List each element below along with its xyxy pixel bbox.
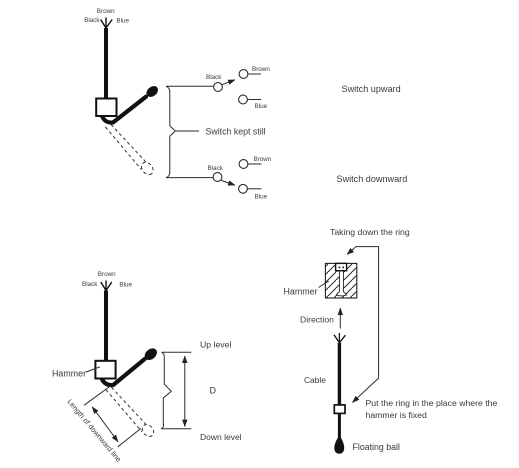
svg-text:Brown: Brown xyxy=(98,271,116,278)
svg-text:Hammer: Hammer xyxy=(52,369,86,379)
svg-text:D: D xyxy=(210,385,217,395)
svg-text:Floating ball: Floating ball xyxy=(353,442,400,452)
svg-text:Black: Black xyxy=(208,165,224,172)
svg-text:Black: Black xyxy=(206,74,222,81)
svg-text:Direction: Direction xyxy=(300,314,334,324)
svg-text:Length of downward line: Length of downward line xyxy=(65,397,123,463)
svg-text:Blue: Blue xyxy=(119,282,132,289)
svg-text:Down level: Down level xyxy=(200,432,242,442)
svg-text:Up level: Up level xyxy=(200,340,231,350)
svg-text:Blue: Blue xyxy=(255,194,268,201)
svg-text:Blue: Blue xyxy=(116,17,129,24)
svg-text:Brown: Brown xyxy=(97,8,115,15)
svg-text:Switch upward: Switch upward xyxy=(342,84,401,94)
svg-text:Taking down the ring: Taking down the ring xyxy=(330,227,410,237)
svg-text:Switch kept still: Switch kept still xyxy=(206,126,266,136)
svg-text:Brown: Brown xyxy=(254,156,272,163)
svg-text:hammer is fixed: hammer is fixed xyxy=(366,410,427,420)
svg-text:Switch downward: Switch downward xyxy=(337,174,408,184)
svg-text:Black: Black xyxy=(82,281,98,288)
svg-text:Black: Black xyxy=(84,17,100,24)
svg-text:Cable: Cable xyxy=(304,375,326,385)
svg-text:Put the ring in the place wher: Put the ring in the place where the xyxy=(366,398,498,408)
svg-text:Hammer: Hammer xyxy=(284,287,318,297)
svg-text:Blue: Blue xyxy=(255,103,268,110)
svg-text:Brown: Brown xyxy=(252,66,270,73)
